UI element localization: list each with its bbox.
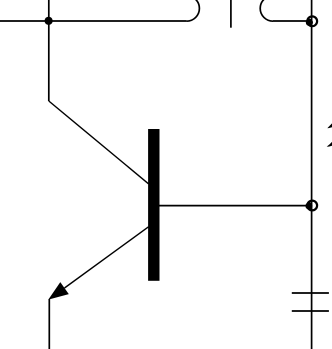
wire — [0, 20, 187, 22]
junction dot — [45, 17, 53, 25]
wire — [48, 299, 50, 349]
junction dot at base node — [305, 202, 312, 209]
wire emitter diagonal — [65, 227, 149, 288]
wire stub — [230, 0, 232, 28]
terminal circle base node — [307, 201, 317, 211]
wire right bus — [311, 0, 313, 349]
capacitor C1 plate — [292, 292, 329, 294]
terminal circle top — [307, 16, 317, 26]
wire collector diagonal — [49, 101, 149, 184]
transistor Q1 emitter arrowhead — [48, 282, 69, 300]
transistor Q1 base bar — [148, 129, 159, 281]
wire — [48, 0, 50, 101]
capacitor C1 plate — [292, 310, 329, 312]
wire — [273, 20, 307, 22]
label fragment 2 — [327, 142, 332, 147]
wire rounded hook left — [187, 0, 200, 21]
junction dot at top terminal — [306, 19, 313, 26]
wire base lead — [159, 205, 309, 207]
wire rounded hook right — [260, 0, 273, 21]
label fragment 2 — [327, 123, 332, 128]
